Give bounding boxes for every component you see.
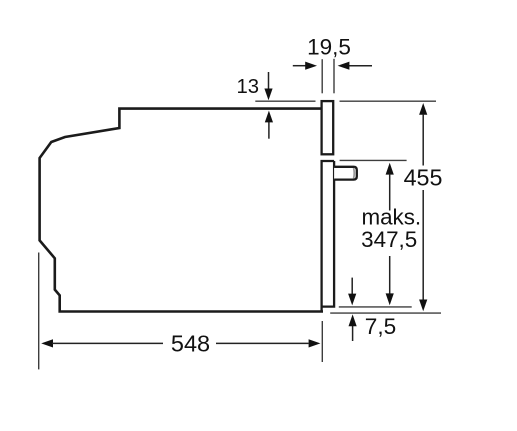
svg-text:19,5: 19,5 (307, 34, 351, 59)
maks dimension line upper (386, 163, 394, 175)
svg-text:maks.: maks. (361, 205, 421, 230)
top extension line right segment (340, 100, 437, 102)
maks 347,5 extension line (340, 159, 407, 161)
548 dimension line (41, 339, 53, 347)
19,5 extension line right (333, 59, 335, 94)
svg-text:7,5: 7,5 (365, 314, 396, 339)
19,5 right arrow (349, 65, 372, 67)
19,5 left arrow (293, 65, 306, 67)
svg-text:548: 548 (171, 331, 210, 357)
7,5 down arrow (351, 278, 353, 294)
control panel front strip (322, 101, 334, 154)
oven door front strip (322, 161, 335, 312)
7,5 up arrow (352, 326, 354, 341)
door handle (334, 167, 357, 180)
bottom reference line lower (330, 312, 441, 314)
455 dimension line lower (422, 190, 424, 301)
maks dimension line lower (389, 256, 391, 294)
19,5 extension line left (321, 59, 323, 93)
455 dimension line upper (419, 103, 427, 115)
13 up arrow (268, 122, 270, 139)
handle cap inner line (353, 168, 356, 178)
top extension line left segment (255, 100, 315, 102)
548 extension line left (38, 253, 40, 370)
oven body outline (40, 109, 323, 312)
svg-text:347,5: 347,5 (361, 227, 417, 252)
svg-text:455: 455 (404, 164, 443, 190)
svg-text:13: 13 (236, 76, 259, 98)
bottom reference line upper (339, 306, 412, 308)
13 down arrow (268, 72, 270, 90)
548 extension line right (321, 321, 323, 362)
